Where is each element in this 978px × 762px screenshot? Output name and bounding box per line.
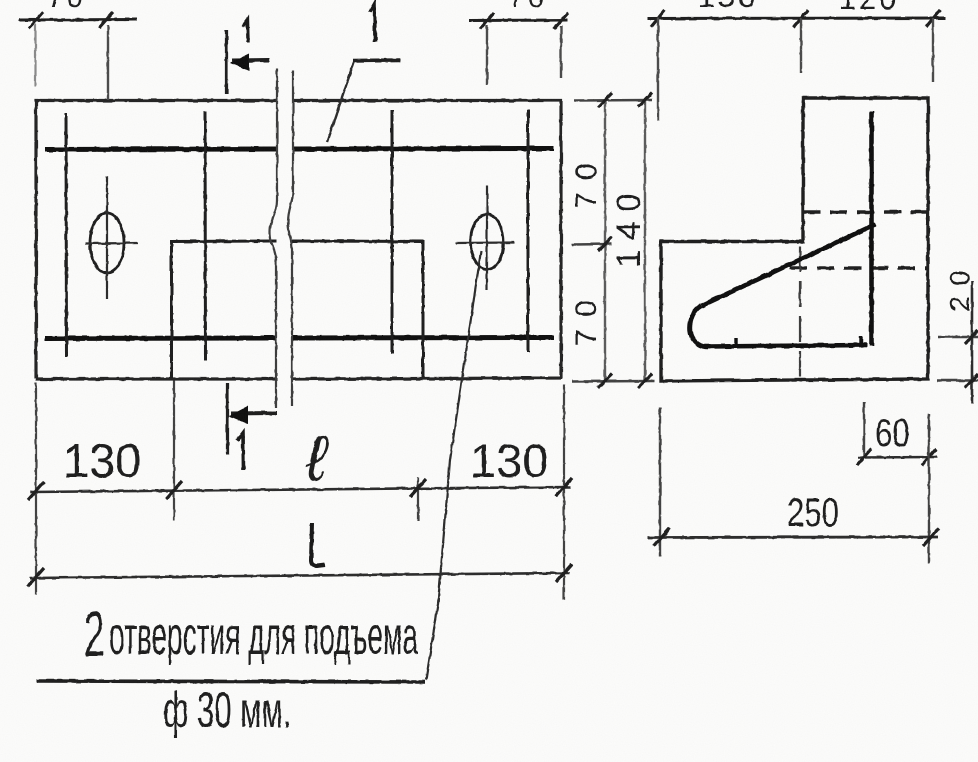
section cut mark top: vertical stroke	[225, 30, 228, 94]
hidden dashed line upper	[803, 210, 928, 213]
dim 60: extension x=864	[863, 402, 865, 457]
tick 60 right	[922, 449, 936, 465]
tick row1 left	[28, 482, 44, 500]
transverse bar 2	[204, 111, 208, 361]
transverse bar 3	[391, 110, 394, 354]
dim 250: line	[647, 536, 938, 539]
extension x=933	[932, 18, 934, 82]
extension line right 130 boundary	[417, 477, 419, 521]
rebar bent diagonal (section)	[701, 224, 876, 306]
left vertical dim line inner (70/70)	[604, 100, 606, 381]
extension line step left down	[173, 380, 175, 521]
tick section-step	[794, 10, 808, 27]
tick section-right	[926, 10, 940, 27]
rebar vertical leg (section)	[869, 111, 874, 346]
rebar bottom bar (section)	[705, 345, 867, 347]
tick 70-top inner	[598, 93, 612, 107]
extension line hole 1 axis	[107, 25, 109, 100]
label L	[311, 523, 325, 566]
section cut label 1 (bottom)	[237, 433, 244, 470]
note underline	[37, 681, 425, 682]
bottom extension of section dims	[572, 380, 654, 383]
transverse bar 4	[527, 110, 530, 352]
tick row1 right-130	[410, 479, 426, 497]
rebar leader horizontal	[353, 58, 400, 62]
right dim 20: vertical line	[971, 281, 974, 404]
20 extension upper	[938, 336, 978, 339]
tick 140-top outer	[638, 93, 652, 107]
top-left dimension line (70, clipped)	[19, 18, 137, 22]
section cut mark bottom: arrow shaft	[231, 411, 277, 416]
tick row2 right	[556, 564, 572, 582]
extension line hole 2 axis	[486, 25, 488, 85]
extension line beam left edge	[34, 24, 36, 87]
extension x=801	[800, 18, 802, 73]
extension line right edge down	[563, 384, 565, 600]
tick 250 right	[923, 528, 939, 546]
tick 70-bottom inner	[598, 374, 612, 388]
top longitudinal rebar (plan, thick)	[45, 149, 554, 150]
tick at hole 2 axis	[480, 13, 494, 29]
tick at beam left edge	[29, 12, 43, 28]
transverse bar 1	[65, 113, 69, 357]
rebar leader diagonal	[327, 62, 354, 142]
extension line left edge down	[35, 383, 37, 595]
section cut mark bottom: arrowhead	[229, 406, 248, 424]
tick row2 left	[28, 568, 44, 586]
extension line beam right edge top	[560, 26, 562, 78]
hole 2 crosshair	[456, 185, 514, 290]
tick at hole 1 axis	[99, 12, 113, 28]
tick row1 step	[166, 481, 182, 499]
rebar hook (section)	[690, 306, 708, 347]
beam outline (plan), broken at break lines	[36, 101, 561, 380]
tick 20 upper	[965, 330, 978, 344]
step (recess) edge in plan	[172, 241, 424, 378]
dim 60: line	[858, 456, 937, 459]
dim 250: extension right x=929	[928, 413, 930, 563]
tick at beam right edge	[554, 13, 568, 29]
section cut mark bottom: vertical stroke	[226, 383, 229, 455]
dimension line row 1 (130 | l | 130)	[30, 487, 570, 492]
tick 70-mid	[598, 237, 612, 251]
tick section-left	[651, 10, 665, 27]
hole 1 crosshair	[85, 176, 138, 299]
tick 60 left	[857, 449, 871, 465]
lifting hole 2 (ellipse)	[471, 215, 504, 270]
tick 20 lower	[965, 374, 978, 388]
hidden dashed line lower	[790, 266, 928, 269]
section cut mark top: arrowhead	[230, 54, 249, 71]
tick row1 right end	[556, 478, 572, 496]
left vertical dim line outer (140)	[644, 100, 646, 381]
section cut label 1 (top)	[243, 20, 248, 42]
tick 250 left	[654, 528, 670, 546]
section outline (stepped)	[661, 98, 928, 381]
extension x=658	[657, 18, 659, 121]
dimension line row 2 (L)	[30, 573, 570, 578]
tick 140-bottom outer	[638, 374, 652, 388]
lifting hole 1 (ellipse)	[90, 213, 124, 273]
top dimension line 130|120 (clipped labels)	[647, 17, 946, 21]
rebar tick 2	[859, 336, 862, 346]
rebar tick 1	[734, 338, 737, 347]
rebar leader label 1	[370, 4, 375, 42]
bottom longitudinal rebar (plan, thick)	[45, 338, 554, 339]
leader line from hole 2 to note	[426, 251, 481, 680]
top extension of section dims	[574, 99, 652, 102]
break line left (wavy)	[270, 68, 277, 408]
mid extension (70/70 split)	[572, 243, 612, 246]
dim 250: extension left x=660	[659, 407, 661, 556]
break line right (wavy)	[288, 70, 293, 406]
section cut mark top: arrow shaft	[232, 58, 269, 63]
20 extension lower	[937, 379, 978, 382]
centerline through section (dashed)	[799, 246, 801, 380]
top-right dimension line (70, clipped)	[469, 19, 568, 23]
